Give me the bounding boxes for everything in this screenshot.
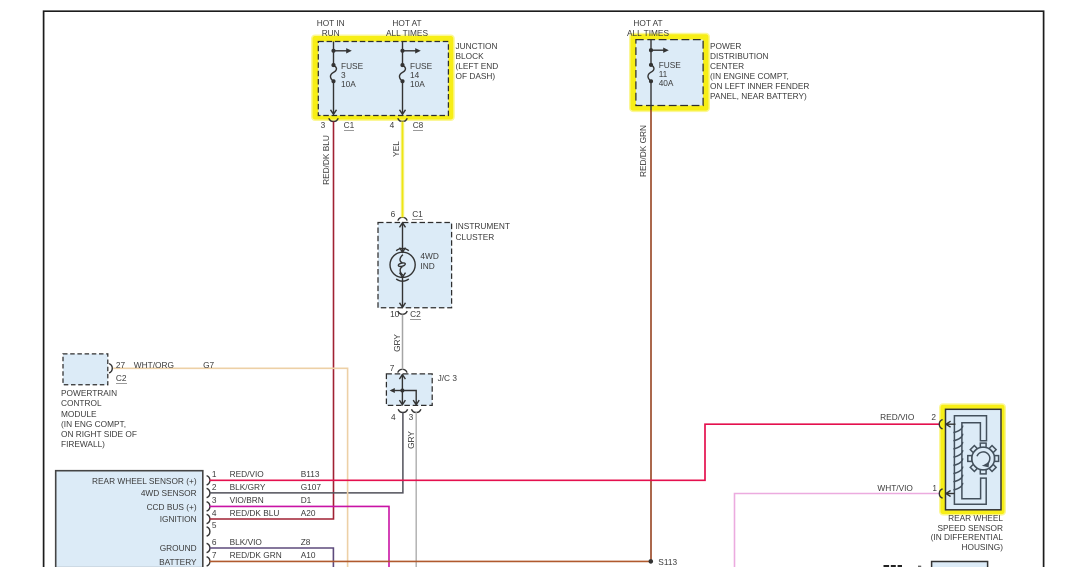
J/C 3 internal bus [390, 374, 420, 405]
label C2 (PCM) [116, 373, 127, 383]
label FUSE 11 40A [659, 61, 681, 88]
label circuit Z8 [301, 537, 311, 547]
wire RED/DK GRN (module pin 7 to splice S113, A10) [210, 560, 652, 562]
label module pin 1 [212, 469, 217, 479]
module connector pin cups 1-7 [207, 476, 210, 566]
wire RED/VIO (module pin 1 to sensor pin 2, B113) [210, 424, 940, 480]
label circuit D1 [301, 495, 312, 505]
speed sensor coil and body icon [953, 416, 986, 505]
label CCD BUS (+) (module) [47, 502, 197, 512]
label wire VIO/BRN (row 3) [230, 495, 264, 505]
wire VIO/BRN (module pin 3, D1) [210, 506, 390, 567]
PCM connector C2 pin 27 cup [109, 364, 112, 373]
J/C 3 pin 3 cup [412, 409, 421, 412]
label module pin 3 [212, 495, 217, 505]
label REAR WHEEL SENSOR (+) (module) [47, 476, 197, 486]
wire YEL (fuse 14 to cluster pin 6) [401, 122, 405, 218]
J/C 3 pin 7 cup [398, 369, 407, 372]
label wire RED/VIO (row 1) [230, 469, 264, 479]
label YEL (rotated) [391, 119, 401, 179]
label FUSE 3 10A [341, 62, 363, 89]
label RED/VIO (sensor pin 2) [834, 412, 914, 422]
label C2 (cluster) [410, 309, 421, 319]
label HOT IN RUN [286, 18, 376, 38]
label pin 4 (C8) [379, 120, 394, 130]
wire WHT/VIO (sensor pin 1, down) [735, 494, 940, 567]
label WHT/ORG [134, 360, 174, 370]
rear wheel speed sensor, highlighted [941, 405, 1005, 514]
label circuit A20 [301, 508, 316, 518]
label INSTRUMENT CLUSTER [456, 221, 510, 242]
J/C 3 pin 4 cup [398, 409, 407, 412]
connector C1 pin 3 cup (junction block) [329, 118, 338, 121]
sensor pin 1 cup and arrow [939, 489, 954, 498]
sensor pin 2 cup and arrow [939, 420, 955, 429]
wire BLK/GRY (J/C 3 pin 4 to module pin 2) [210, 412, 403, 493]
connector C1 pin 6 cup (instrument cluster) [398, 217, 407, 220]
partial bold label (cut off) [884, 565, 922, 567]
label wire BLK/GRY (row 2) [230, 482, 266, 492]
label BATTERY (module) [47, 557, 197, 567]
label RED/DK BLU (rotated) [321, 130, 331, 190]
4WD IND lamp (instrument cluster) [390, 223, 415, 308]
label pin 10 [384, 309, 399, 319]
label HOT AT ALL TIMES (PDC) [603, 18, 693, 38]
label GROUND (module) [47, 543, 197, 553]
label pin 3 (J/C 3) [409, 412, 414, 422]
label GRY (J/C 3 pin 3) [406, 410, 416, 470]
label GRY (cluster to J/C 3) [392, 313, 402, 373]
label C1 (cluster) [412, 209, 423, 219]
label circuit B113 [301, 469, 320, 479]
label HOT AT ALL TIMES (junction block) [362, 18, 452, 38]
label C8 (junction block) [413, 120, 424, 130]
tone wheel gear icon [968, 443, 999, 474]
wire WHT/ORG (PCM pin 27, G7) [113, 368, 347, 567]
connector C8 pin 4 cup (junction block) [398, 118, 407, 121]
label G7 [203, 360, 214, 370]
label circuit A10 [301, 550, 316, 560]
label FUSE 14 10A [410, 62, 432, 89]
wire GRY (cluster pin 10 to J/C 3 pin 7) [402, 315, 404, 370]
label pin 7 (J/C 3) [379, 363, 394, 373]
label POWERTRAIN CONTROL MODULE [61, 388, 137, 449]
splice S113 [649, 559, 654, 564]
label pin 4 (J/C 3) [391, 412, 396, 422]
label pin 2 (sensor) [921, 412, 936, 422]
fuse 14 10A (in junction block) [399, 42, 420, 115]
fuse 11 40A (in power distribution center) [648, 40, 669, 110]
wire GRY (J/C 3 pin 3 down) [415, 412, 417, 567]
partial component box (cut off at bottom) [932, 562, 988, 567]
rear wheel anti-lock brake module box [56, 471, 203, 567]
label pin 3 (C1) [310, 120, 325, 130]
wire RED/DK BLU (fuse 3 to ignition pin 4) [210, 122, 334, 520]
label wire RED/DK GRN (row 7) [230, 550, 282, 560]
instrument cluster box [378, 223, 452, 308]
label RED/DK GRN (rotated) [638, 121, 648, 181]
fuse 3 10A (in junction block) [330, 42, 351, 115]
label J/C 3 [438, 373, 457, 383]
powertrain control module box [63, 354, 108, 385]
junction connector J/C 3 box [386, 374, 432, 406]
label 4WD SENSOR (module) [47, 488, 197, 498]
label S113 [658, 557, 677, 567]
power distribution center (fuse 11), highlighted [631, 34, 709, 110]
label circuit G107 [301, 482, 321, 492]
label module pin 5 [212, 520, 217, 530]
label pin 1 (sensor) [922, 483, 937, 493]
label wire BLK/VIO (row 6) [230, 537, 262, 547]
label IGNITION (module) [47, 514, 197, 524]
label JUNCTION BLOCK (LEFT END OF DASH) [456, 42, 499, 81]
label REAR WHEEL SPEED SENSOR [873, 514, 1003, 553]
label module pin 4 [212, 508, 217, 518]
label module pin 7 [212, 550, 217, 560]
wire BLK/VIO (module pin 6, Z8) [210, 548, 334, 567]
label WHT/VIO (sensor pin 1) [833, 483, 913, 493]
label C1 (junction block) [344, 120, 355, 130]
label pin 27 (PCM) [116, 360, 125, 370]
wire RED/DK GRN (fuse 11 to splice S113) [650, 110, 652, 561]
label POWER DISTRIBUTION CENTER [710, 42, 809, 101]
label module pin 6 [212, 537, 217, 547]
label module pin 2 [212, 482, 217, 492]
label wire RED/DK BLU (row 4) [230, 508, 280, 518]
connector C2 pin 10 cup (instrument cluster) [398, 311, 407, 314]
label pin 6 [380, 209, 395, 219]
label 4WD IND [420, 252, 438, 270]
junction block (fuses 3 and 14), highlighted [313, 36, 454, 120]
